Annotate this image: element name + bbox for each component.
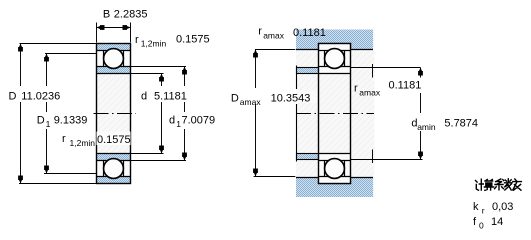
da dimension line bbox=[420, 68, 422, 160]
shaft right end tick lower bbox=[372, 150, 374, 164]
B left arrow bbox=[97, 26, 101, 29]
D dimension line bbox=[20, 44, 22, 184]
Da top extension line bbox=[255, 49, 295, 51]
svg-text:D11.0236: D11.0236 bbox=[9, 90, 61, 102]
outer ring upper blue band bbox=[97, 44, 131, 51]
svg-text:B2.2835: B2.2835 bbox=[103, 8, 148, 20]
shaft end face line bbox=[296, 66, 298, 162]
d bottom extension line bbox=[131, 153, 164, 155]
Da top arrow bbox=[254, 50, 257, 54]
D1 top arrow bbox=[45, 54, 48, 58]
bearing raceway lines lower bbox=[319, 154, 351, 177]
glyph shu bbox=[505, 179, 522, 190]
glyph xi bbox=[495, 179, 504, 190]
d top arrow bbox=[160, 74, 163, 78]
D1 top extension line bbox=[45, 53, 97, 55]
left view: bearing cross-section bbox=[94, 44, 137, 184]
bearing raceway lines upper bbox=[319, 51, 351, 74]
raceway boundary lines upper bbox=[97, 51, 131, 74]
inner ring upper blue band bbox=[97, 67, 131, 74]
shaft upper shoulder bbox=[297, 68, 319, 74]
ball lower bbox=[104, 159, 124, 179]
axis centerline bbox=[94, 113, 137, 115]
da top arrow bbox=[419, 68, 422, 72]
B dimension line bbox=[97, 27, 131, 29]
d top extension line bbox=[131, 73, 164, 75]
d1 top extension line bbox=[131, 66, 187, 68]
drawing area hatch bbox=[296, 30, 375, 198]
heading CJK strokes bbox=[476, 179, 522, 191]
bore gap background bbox=[97, 74, 131, 154]
D top arrow bbox=[19, 44, 22, 48]
raceway boundary lines lower bbox=[97, 154, 131, 177]
bearing bore gap background bbox=[319, 74, 351, 154]
ball upper bbox=[325, 49, 345, 69]
right view dimension lines bbox=[254, 50, 423, 177]
Da bottom arrow bbox=[254, 173, 257, 177]
left view labels bbox=[9, 8, 216, 148]
inner ring lower blue band bbox=[97, 154, 131, 161]
da bottom extension line bbox=[351, 159, 423, 161]
right view labels bbox=[231, 26, 478, 132]
shaft lower shoulder bbox=[297, 154, 319, 160]
d dimension line bbox=[161, 74, 163, 154]
race shoulder verticals lower bbox=[104, 161, 124, 177]
glyph ji bbox=[476, 179, 484, 190]
shaft right end tick upper bbox=[372, 64, 374, 78]
bearing interior background bbox=[97, 44, 131, 184]
D bottom arrow bbox=[19, 180, 22, 184]
label r12min bottom backing bbox=[97, 132, 131, 146]
housing upper block bbox=[296, 30, 373, 50]
ball lower bbox=[325, 159, 345, 179]
bearing section background bbox=[319, 44, 351, 184]
left view dimension lines bbox=[19, 23, 186, 184]
race shoulder verticals lower bbox=[325, 161, 345, 177]
race shoulder verticals upper bbox=[104, 51, 124, 67]
axis centerline bbox=[296, 113, 374, 115]
right view: mounting drawing bbox=[296, 30, 375, 198]
B right arrow bbox=[127, 26, 131, 29]
glyph suan bbox=[484, 180, 493, 191]
d1 dimension line bbox=[184, 67, 186, 161]
bearing outline bbox=[97, 44, 131, 184]
d bottom arrow bbox=[160, 150, 163, 154]
ball upper bbox=[104, 49, 124, 69]
D bottom extension line bbox=[19, 183, 97, 185]
d1 top arrow bbox=[183, 67, 186, 71]
bearing outline bbox=[319, 44, 351, 184]
calculation factors block bbox=[473, 179, 521, 231]
da top extension line bbox=[351, 67, 421, 69]
D1 bottom extension line bbox=[44, 173, 97, 175]
da bottom arrow bbox=[419, 156, 422, 160]
D1 dimension line bbox=[46, 54, 48, 174]
housing lower bore profile bbox=[296, 178, 373, 184]
d1 bottom extension line bbox=[131, 160, 187, 162]
D top extension line bbox=[20, 43, 97, 45]
label Damax backing bbox=[296, 91, 317, 104]
outer ring lower blue band bbox=[97, 177, 131, 184]
d1 bottom arrow bbox=[183, 157, 186, 161]
housing upper bore profile bbox=[296, 44, 373, 50]
housing lower block bbox=[296, 178, 373, 198]
race shoulder verticals upper bbox=[325, 51, 345, 67]
Da bottom extension line bbox=[254, 176, 296, 178]
D1 bottom arrow bbox=[45, 170, 48, 174]
Da dimension line bbox=[255, 50, 257, 177]
B extension lines bbox=[97, 23, 131, 43]
